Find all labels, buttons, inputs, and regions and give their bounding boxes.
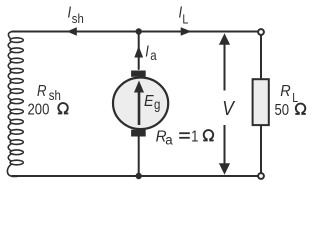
svg-text:sh: sh bbox=[72, 11, 84, 26]
svg-text:sh: sh bbox=[49, 87, 61, 103]
svg-text:1: 1 bbox=[191, 128, 198, 145]
svg-text:L: L bbox=[292, 90, 298, 105]
svg-text:g: g bbox=[154, 96, 160, 112]
svg-text:E: E bbox=[144, 93, 154, 111]
svg-text:a: a bbox=[165, 132, 173, 147]
svg-text:a: a bbox=[150, 47, 157, 63]
svg-text:R: R bbox=[280, 83, 290, 101]
svg-text:R: R bbox=[37, 83, 47, 100]
svg-text:I: I bbox=[68, 4, 72, 21]
svg-text:50: 50 bbox=[275, 102, 290, 119]
svg-text:I: I bbox=[145, 43, 149, 60]
svg-text:200: 200 bbox=[28, 101, 50, 118]
svg-text:L: L bbox=[182, 11, 188, 26]
